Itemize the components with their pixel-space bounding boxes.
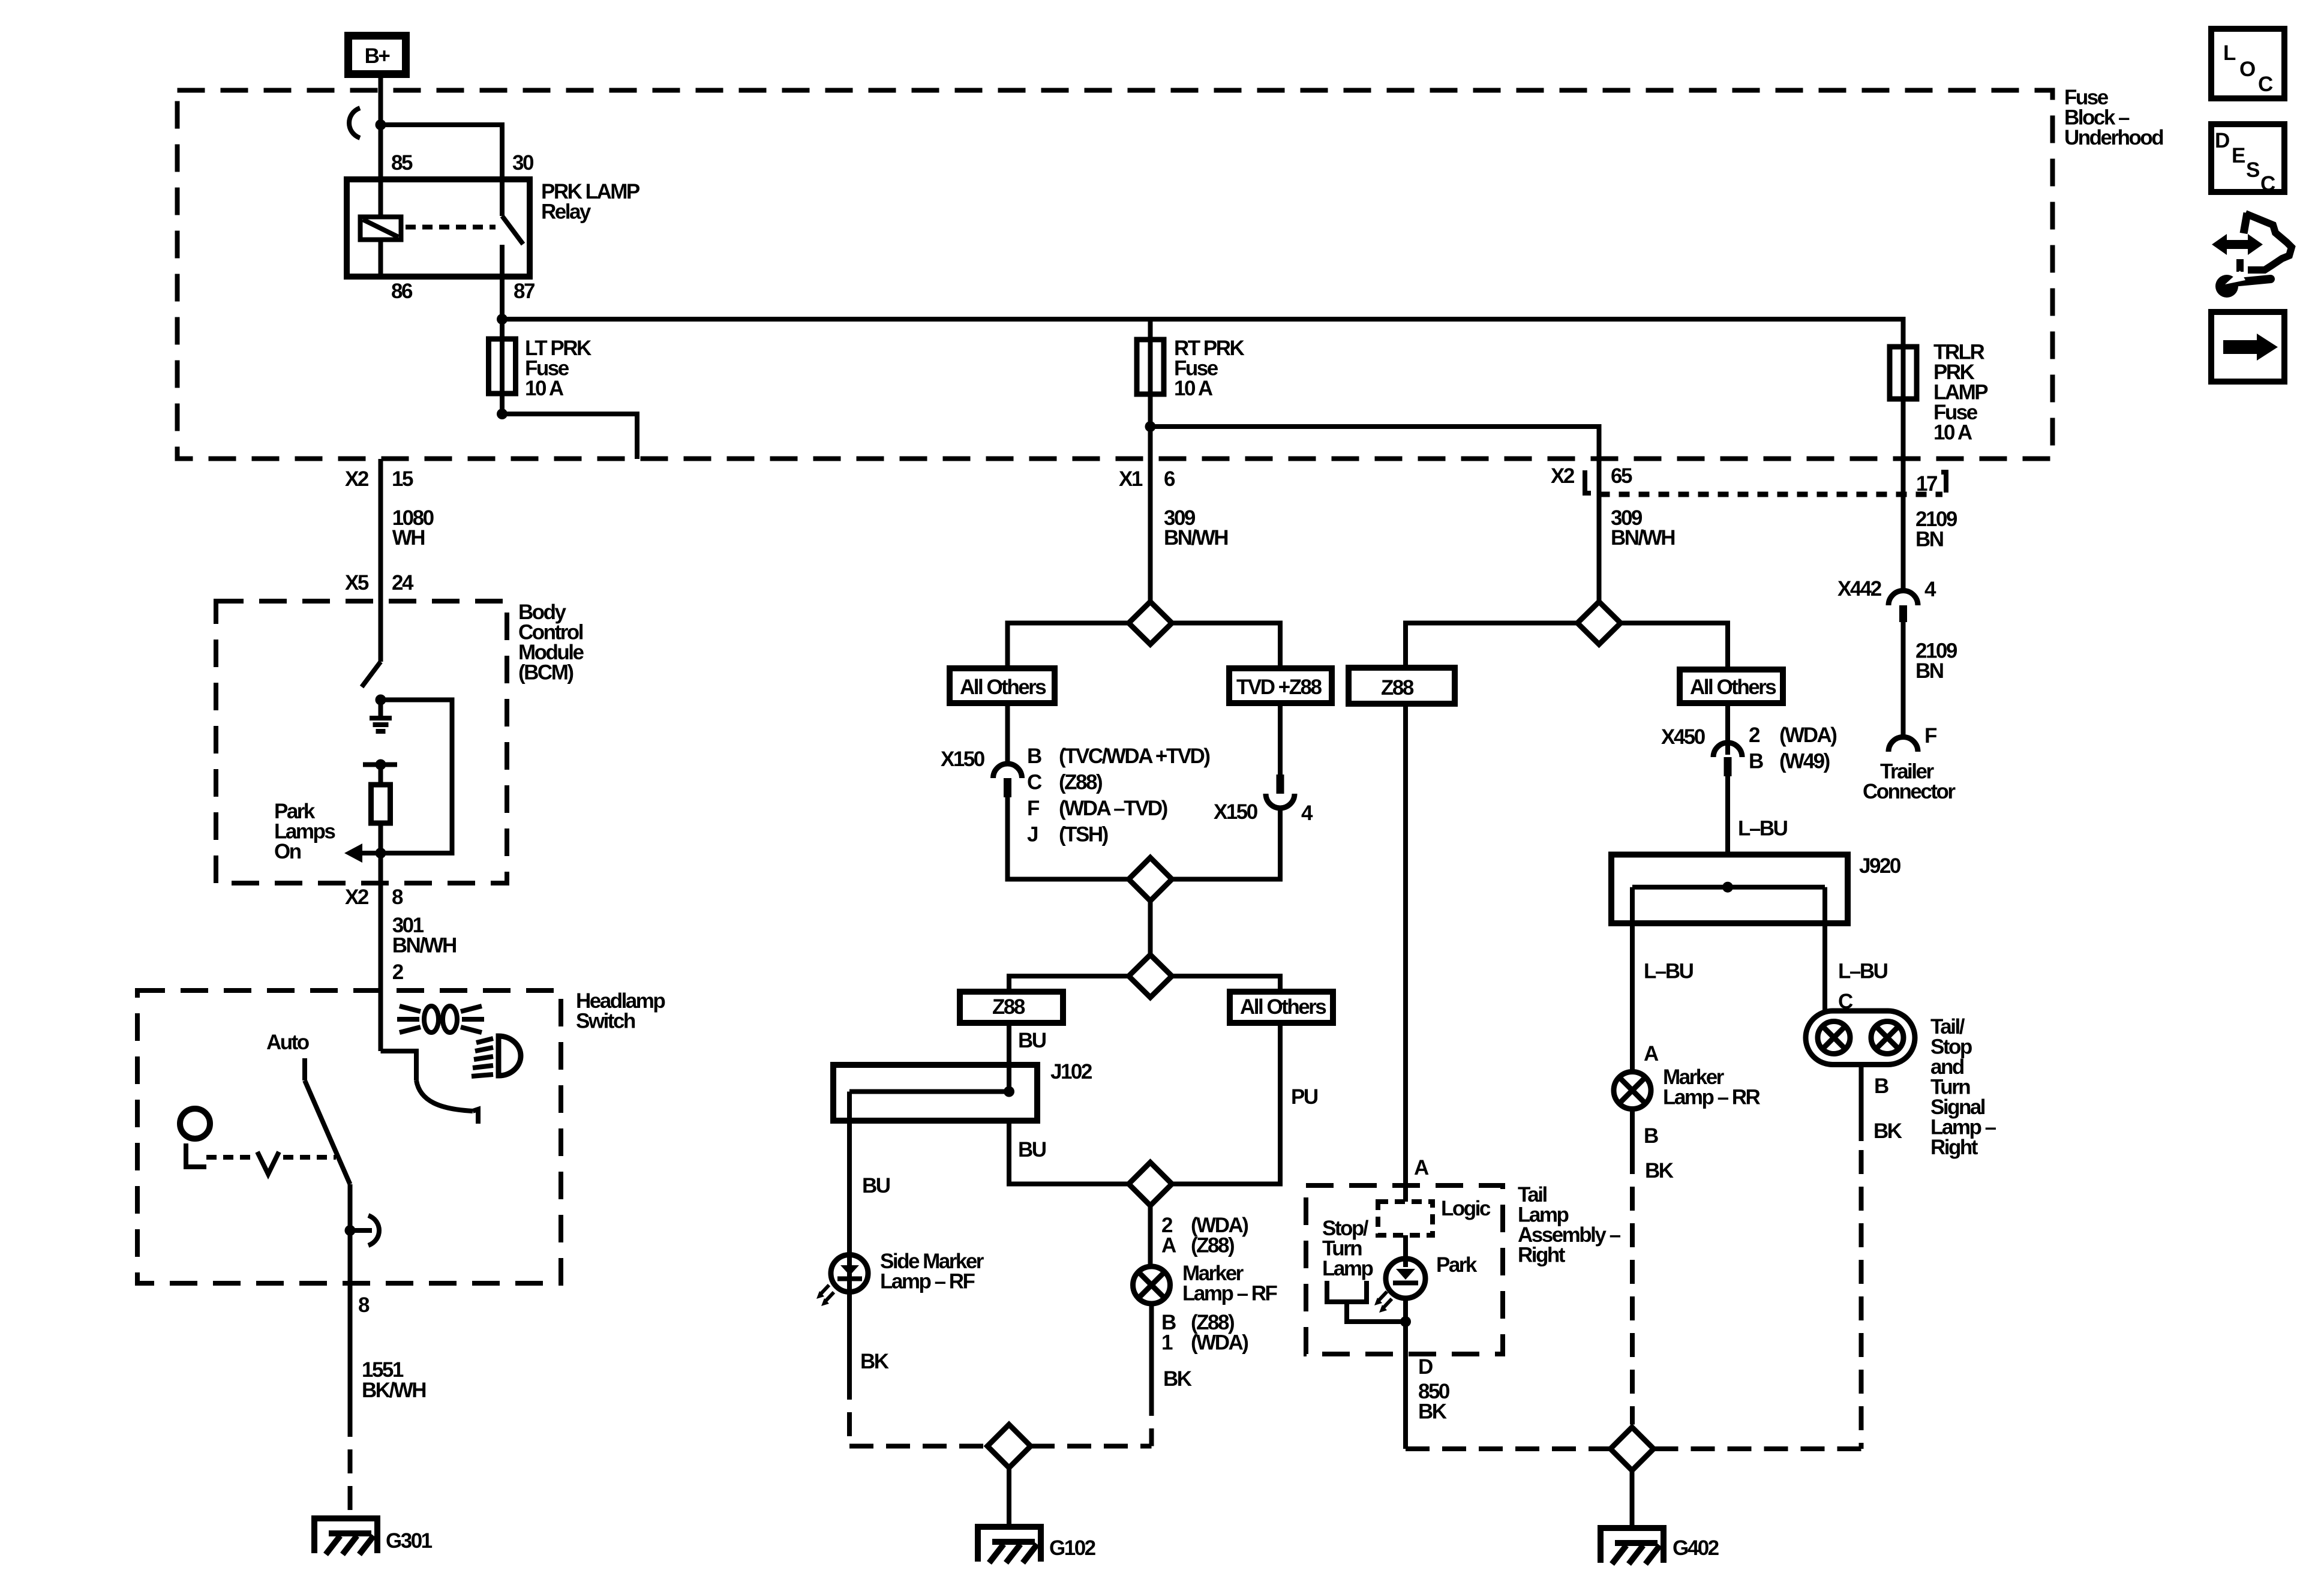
X150 pin list labels <box>1027 745 1209 846</box>
node: RT PRK output junction <box>1145 421 1156 432</box>
wire X150-4 to merge diamond <box>1172 808 1281 879</box>
svg-text:J102: J102 <box>1050 1060 1092 1083</box>
splice diamond: X2-65 branch <box>1578 602 1621 644</box>
node: BCM switch output junction <box>376 695 386 706</box>
pin D and circuit 850 BK labels <box>1418 1355 1450 1424</box>
connector X450 <box>1713 743 1742 776</box>
wire through LT PRK fuse <box>500 319 505 414</box>
ground bus dashed to G402 <box>1406 1446 1611 1451</box>
dotted connector tie line <box>1599 492 1943 497</box>
wire to All Others option box <box>1008 623 1129 669</box>
svg-text:(BCM): (BCM) <box>518 661 573 685</box>
svg-text:6: 6 <box>1164 467 1175 491</box>
svg-text:C: C <box>2258 73 2273 96</box>
svg-text:All Others: All Others <box>1240 995 1326 1019</box>
ground G301 <box>311 1518 380 1554</box>
wire logic to park LED <box>1403 1235 1408 1267</box>
svg-text:E: E <box>2232 144 2245 167</box>
bracket: X2 connector tie right <box>1941 472 1946 493</box>
connector X442 <box>1888 591 1918 623</box>
BCM label <box>518 601 584 685</box>
option box: Z88 <box>960 992 1063 1023</box>
svg-text:L–BU: L–BU <box>1838 960 1888 983</box>
svg-text:BK: BK <box>1163 1367 1192 1391</box>
fuse F1: LT PRK Fuse 10 A <box>489 339 516 394</box>
X450 pin labels <box>1749 724 1836 773</box>
option box: All Others (far right) <box>1680 670 1783 703</box>
svg-text:BK: BK <box>860 1350 889 1373</box>
wire marker lamp RF to ground bus <box>1149 1304 1154 1446</box>
svg-text:B: B <box>1874 1074 1888 1098</box>
arrow: Park Lamps On output <box>344 843 381 863</box>
svg-text:Auto: Auto <box>266 1031 310 1054</box>
contact: off position circle <box>180 1109 210 1139</box>
svg-text:BU: BU <box>1018 1029 1046 1052</box>
svg-text:PU: PU <box>1291 1085 1318 1109</box>
icon box: LOC <box>2211 29 2284 98</box>
headlamp switch wiper arm <box>381 1051 479 1124</box>
svg-text:BU: BU <box>1018 1138 1046 1161</box>
wire to Z88 option box <box>1009 976 1129 992</box>
svg-text:D: D <box>1418 1355 1433 1379</box>
Headlamp Switch label <box>576 989 665 1033</box>
wire J920 to tail lamp <box>1822 887 1827 1011</box>
connector label X2 pin 8 <box>345 885 403 909</box>
svg-text:All Others: All Others <box>960 676 1046 699</box>
svg-text:A: A <box>1161 1234 1176 1257</box>
ground G102 <box>975 1527 1044 1563</box>
svg-text:(W49): (W49) <box>1779 750 1830 773</box>
svg-text:All Others: All Others <box>1690 676 1776 699</box>
svg-text:B: B <box>1749 750 1763 773</box>
svg-text:S: S <box>2246 158 2259 182</box>
node: B+ feed junction <box>376 119 386 130</box>
splice diamond: option merge <box>1129 858 1172 901</box>
ground bus dashed right segment <box>1031 1444 1152 1449</box>
Marker Lamp - RF label <box>1182 1262 1278 1305</box>
svg-text:J920: J920 <box>1859 854 1901 878</box>
crimp hook symbol <box>349 108 360 138</box>
wire diamond to G402 <box>1630 1470 1635 1528</box>
pin labels 2 (WDA) / A (Z88) <box>1161 1214 1248 1257</box>
wire to X2-65 drop <box>1151 427 1599 602</box>
svg-text:BN/WH: BN/WH <box>1164 526 1227 550</box>
svg-text:Lamp – RR: Lamp – RR <box>1663 1086 1761 1109</box>
svg-text:X150: X150 <box>941 748 985 771</box>
svg-text:BK/WH: BK/WH <box>362 1379 425 1402</box>
stop/turn filament element <box>1327 1281 1406 1322</box>
svg-text:Z88: Z88 <box>992 995 1025 1019</box>
wire J102 to BU/PU merge diamond <box>1009 1121 1129 1184</box>
node: LT PRK fuse output junction <box>497 409 508 419</box>
svg-text:(Z88): (Z88) <box>1059 771 1102 794</box>
svg-text:(TSH): (TSH) <box>1059 823 1108 846</box>
svg-text:BN: BN <box>1915 528 1943 551</box>
svg-text:B: B <box>1644 1124 1658 1148</box>
wire pin 87 to bus <box>500 277 505 319</box>
connector X150 (harness side) <box>993 764 1022 797</box>
mechanical link dashed with detent <box>206 1152 336 1174</box>
lamp: Marker Lamp - RR <box>1614 1072 1651 1109</box>
splice diamond: G402 <box>1611 1427 1654 1470</box>
splice diamond: Z88 / All Others split <box>1129 955 1172 998</box>
option box: Z88 (right) <box>1349 668 1455 704</box>
wire to All Others option box far right <box>1621 623 1728 670</box>
svg-text:C: C <box>1027 771 1042 794</box>
svg-text:(WDA): (WDA) <box>1779 724 1836 747</box>
svg-text:Lamp – RF: Lamp – RF <box>880 1270 975 1293</box>
relay mechanical link dashed <box>406 225 496 230</box>
wire park LED to junction <box>1403 1298 1408 1449</box>
Headlamp Switch dashed box <box>137 990 561 1283</box>
lamp: Park (LED) <box>1374 1259 1425 1313</box>
svg-text:A: A <box>1414 1156 1429 1179</box>
node: park lamp ground junction <box>1400 1316 1411 1327</box>
wire marker RR to ground bus <box>1630 1109 1635 1425</box>
option box: All Others <box>950 668 1055 703</box>
wire to Z88 option box right <box>1406 623 1578 668</box>
circuit label 309 BN/WH (left run) <box>1164 506 1227 550</box>
splice diamond: marker lamp feed <box>1129 1163 1172 1206</box>
wire junction to pin 30 <box>381 125 503 179</box>
circuit label 2109 BN (lower) <box>1915 640 1957 683</box>
splice J920 <box>1611 855 1848 924</box>
circuit label 301 BN/WH <box>392 914 456 984</box>
wire to TVD +Z88 option box <box>1172 623 1281 669</box>
svg-text:X2: X2 <box>1551 464 1575 488</box>
svg-text:TVD +Z88: TVD +Z88 <box>1236 676 1322 699</box>
Marker Lamp - RR label <box>1663 1065 1761 1109</box>
resistor: park lamps driver element <box>371 785 391 823</box>
svg-text:Z88: Z88 <box>1381 676 1414 700</box>
Stop/Turn Lamp dashed box <box>1306 1185 1503 1354</box>
svg-text:Switch: Switch <box>576 1010 635 1033</box>
svg-text:65: 65 <box>1611 464 1632 488</box>
svg-text:C: C <box>2260 172 2275 196</box>
svg-text:BK: BK <box>1418 1400 1447 1424</box>
svg-text:Logic: Logic <box>1441 1197 1491 1220</box>
circuit label 309 BN/WH (right run) <box>1611 506 1674 550</box>
wire stub to other sheet <box>502 414 637 459</box>
svg-text:(Z88): (Z88) <box>1191 1234 1234 1257</box>
circuit label 1080 WH <box>392 506 434 550</box>
wire diamond to G102 <box>1007 1468 1011 1527</box>
node: switch output junction <box>345 1225 356 1236</box>
svg-text:1: 1 <box>1161 1331 1173 1355</box>
icon box: DESC <box>2211 124 2284 196</box>
wire J920 to marker lamp RR <box>1630 887 1635 1072</box>
Tail Lamp Assembly - Right label <box>1518 1183 1621 1267</box>
connector label X2 pin 15 <box>345 467 413 491</box>
svg-text:10 A: 10 A <box>1933 421 1972 445</box>
svg-text:(WDA –TVD): (WDA –TVD) <box>1059 797 1167 820</box>
svg-text:15: 15 <box>392 467 413 491</box>
option box: TVD +Z88 <box>1229 668 1332 703</box>
svg-text:X5: X5 <box>345 571 369 595</box>
svg-text:X2: X2 <box>345 467 369 491</box>
Park Lamps On label <box>274 800 335 863</box>
relay coil <box>361 179 401 277</box>
svg-text:(WDA): (WDA) <box>1191 1331 1248 1355</box>
circuit label 1551 BK/WH <box>362 1358 425 1402</box>
lamp: Marker Lamp - RF <box>1133 1266 1170 1304</box>
svg-text:G102: G102 <box>1049 1536 1096 1560</box>
Trailer Connector label <box>1863 760 1956 804</box>
svg-text:8: 8 <box>392 885 403 909</box>
svg-text:85: 85 <box>391 151 413 175</box>
LT PRK fuse label <box>525 337 591 400</box>
TRLR PRK LAMP fuse label <box>1933 341 1988 445</box>
wire below driver <box>379 823 383 853</box>
svg-text:O: O <box>2239 58 2255 81</box>
icon: component view (car with arrow and wrench) <box>2212 213 2292 298</box>
B+ battery terminal <box>349 36 406 74</box>
connector X150 pin 4 (device side) <box>1266 775 1295 808</box>
wire X442 to trailer connector <box>1901 622 1906 737</box>
relay U: PRK LAMP Relay box <box>347 179 530 277</box>
wire X150 to merge diamond <box>1008 797 1129 879</box>
svg-text:30: 30 <box>512 151 534 175</box>
wire between merge diamonds <box>1148 901 1153 955</box>
wire through RT PRK fuse <box>1148 319 1153 602</box>
wire side marker to ground bus <box>849 1292 987 1446</box>
svg-text:10 A: 10 A <box>1174 377 1213 400</box>
svg-text:24: 24 <box>392 571 414 595</box>
wire All Others (PU) to merge diamond <box>1172 1023 1281 1184</box>
fuse block label <box>2064 86 2163 149</box>
wire circuit 301 BN/WH to headlamp switch <box>379 853 383 1051</box>
node: 87 output junction <box>497 314 508 325</box>
svg-text:Park: Park <box>1436 1253 1478 1277</box>
svg-text:BN/WH: BN/WH <box>392 934 456 957</box>
svg-text:Connector: Connector <box>1863 780 1956 803</box>
svg-text:Lamp: Lamp <box>1322 1257 1373 1280</box>
svg-text:86: 86 <box>391 280 413 303</box>
lamp: Side Marker Lamp - RF (LED) <box>816 1255 868 1307</box>
svg-text:J: J <box>1027 823 1038 846</box>
connector: trailer connector end <box>1888 737 1918 752</box>
icon: fog lamp symbol <box>472 1036 521 1076</box>
svg-text:BU: BU <box>862 1174 890 1197</box>
logic block dashed <box>1378 1202 1433 1235</box>
wire All Others to X150 <box>1005 703 1010 764</box>
fuse F3: TRLR PRK LAMP Fuse 10 A <box>1890 347 1917 399</box>
BCM internal ground <box>370 700 392 732</box>
wire circuit 1080 WH to BCM <box>379 459 383 662</box>
svg-text:X450: X450 <box>1661 725 1706 749</box>
svg-text:BK: BK <box>1873 1119 1902 1143</box>
wire diamond to marker lamp RF <box>1148 1206 1153 1268</box>
svg-text:10 A: 10 A <box>525 377 564 400</box>
svg-text:L: L <box>2223 41 2236 65</box>
BCM: Body Control Module dashed box <box>216 601 507 883</box>
svg-text:BN: BN <box>1915 659 1943 683</box>
wire J102 to side marker lamp <box>847 1092 852 1256</box>
svg-text:8: 8 <box>358 1293 370 1317</box>
svg-text:87: 87 <box>514 280 535 303</box>
svg-text:(TVC/WDA +TVD): (TVC/WDA +TVD) <box>1059 745 1209 768</box>
wire to All Others option box right <box>1172 976 1281 992</box>
connector label X2 pin 65 <box>1551 464 1632 488</box>
BCM internal switch blade <box>362 662 381 687</box>
svg-text:X150: X150 <box>1214 800 1258 824</box>
fuse F2: RT PRK Fuse 10 A <box>1137 340 1164 394</box>
svg-text:L–BU: L–BU <box>1644 960 1694 983</box>
relay switch blade <box>502 179 523 277</box>
wire: BCM feedback loop <box>381 700 452 854</box>
wire: main feed bus to TRLR fuse <box>502 319 1903 347</box>
bracket: X2 connector tie left <box>1585 470 1591 493</box>
svg-text:F: F <box>1924 724 1937 748</box>
Stop/Turn Lamp label <box>1322 1217 1373 1280</box>
RT PRK fuse label <box>1174 337 1245 400</box>
circuit label 2109 BN (upper) <box>1915 508 1957 551</box>
relay name label <box>541 180 640 224</box>
BCM park lamp driver top bar <box>363 760 397 785</box>
Tail/Stop and Turn Signal Lamp label <box>1930 1015 1996 1159</box>
pin labels B (Z88) / 1 (WDA) <box>1161 1311 1248 1355</box>
Side Marker Lamp - RF label <box>880 1250 984 1293</box>
connector label X1 pin 6 <box>1119 467 1175 491</box>
option box: All Others (second) <box>1230 992 1333 1023</box>
wire All Others to X450 <box>1725 703 1730 755</box>
svg-text:L–BU: L–BU <box>1738 817 1788 840</box>
headlamp switch blade (auto position) <box>305 1058 350 1283</box>
crimp hook symbol <box>350 1215 380 1245</box>
svg-text:Underhood: Underhood <box>2064 126 2163 149</box>
svg-text:WH: WH <box>392 526 425 550</box>
svg-text:D: D <box>2215 129 2229 152</box>
wire tail lamp to ground bus <box>1654 1065 1861 1449</box>
svg-text:X1: X1 <box>1119 467 1143 491</box>
off position stem <box>184 1143 206 1167</box>
svg-text:On: On <box>274 840 301 863</box>
node: driver output junction <box>376 848 386 858</box>
icon: headlamp symbol <box>397 1006 484 1032</box>
splice J102 <box>833 1065 1037 1121</box>
wire through TRLR PRK LAMP fuse <box>1901 347 1906 591</box>
svg-text:G301: G301 <box>386 1529 433 1553</box>
svg-text:G402: G402 <box>1673 1536 1719 1560</box>
svg-text:F: F <box>1027 797 1040 820</box>
svg-text:A: A <box>1644 1042 1659 1065</box>
svg-text:X2: X2 <box>345 885 369 909</box>
svg-text:Relay: Relay <box>541 200 591 224</box>
svg-text:2: 2 <box>1749 724 1760 747</box>
svg-text:Right: Right <box>1930 1136 1978 1159</box>
splice diamond: RT PRK branch <box>1129 602 1172 644</box>
svg-text:2: 2 <box>392 960 404 984</box>
fuse block - underhood dashed box <box>178 91 2053 459</box>
svg-text:BN/WH: BN/WH <box>1611 526 1674 550</box>
connector label X5 pin 24 <box>345 571 414 595</box>
lamp: Tail/Stop and Turn Signal Lamp - Right <box>1806 1011 1915 1065</box>
splice diamond: G102 <box>987 1425 1031 1468</box>
wire Z88 box to J102 <box>1007 1023 1011 1092</box>
svg-text:X442: X442 <box>1837 577 1882 601</box>
svg-text:B: B <box>1027 745 1041 768</box>
svg-text:Right: Right <box>1518 1244 1566 1267</box>
wire B+ to relay coil pin 85 <box>379 78 383 179</box>
wire circuit 1551 BK/WH to G301 <box>348 1283 353 1518</box>
svg-text:Lamp – RF: Lamp – RF <box>1182 1282 1278 1305</box>
svg-text:BK: BK <box>1645 1159 1674 1182</box>
wire Z88 to tail lamp assembly <box>1403 704 1408 1202</box>
wire X450 to J920 <box>1725 776 1730 855</box>
wire TVD+Z88 to X150 pin 4 <box>1278 703 1283 778</box>
svg-text:17: 17 <box>1916 472 1937 496</box>
icon box: forward arrow <box>2211 312 2284 382</box>
svg-text:B+: B+ <box>365 44 391 68</box>
ground G402 <box>1598 1528 1667 1564</box>
